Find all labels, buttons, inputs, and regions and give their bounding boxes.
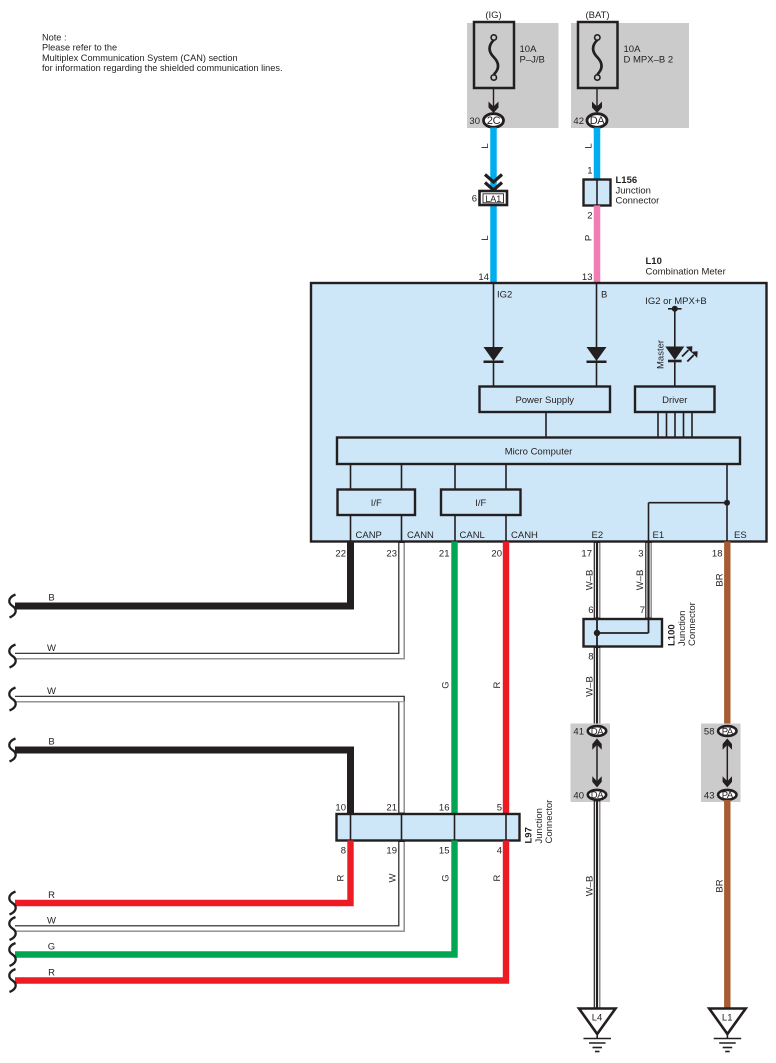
- svg-text:W–B: W–B: [585, 570, 596, 591]
- svg-text:IG2 or MPX+B: IG2 or MPX+B: [645, 296, 707, 307]
- svg-text:G: G: [441, 874, 452, 881]
- svg-text:4: 4: [497, 846, 502, 857]
- svg-text:41: 41: [573, 727, 584, 738]
- svg-text:1: 1: [587, 166, 592, 177]
- L100 labels: [667, 602, 699, 646]
- svg-text:B: B: [601, 290, 607, 301]
- svg-text:13: 13: [582, 272, 593, 283]
- svg-text:7: 7: [640, 605, 645, 616]
- svg-text:17: 17: [581, 549, 592, 560]
- svg-text:Master: Master: [656, 340, 667, 369]
- LED Master: [656, 340, 698, 387]
- svg-text:6: 6: [472, 194, 477, 205]
- wire R L97 pin 8 to offpage: [9, 841, 350, 915]
- svg-text:21: 21: [386, 803, 397, 814]
- svg-text:W: W: [47, 916, 56, 927]
- svg-text:Power Supply: Power Supply: [515, 395, 574, 406]
- svg-text:R: R: [336, 874, 347, 881]
- svg-text:W: W: [47, 643, 56, 654]
- svg-text:L4: L4: [592, 1013, 603, 1024]
- wire W-B E1 to L100 pin 7: [635, 542, 651, 620]
- wire power supply to micro computer: [545, 412, 547, 438]
- junction connector L97: [337, 814, 520, 841]
- power supply box: [480, 387, 611, 413]
- ground L1: [709, 1009, 746, 1052]
- svg-text:Combination Meter: Combination Meter: [646, 267, 726, 278]
- svg-text:L: L: [480, 235, 491, 240]
- svg-text:2C: 2C: [487, 115, 501, 127]
- svg-text:14: 14: [478, 272, 489, 283]
- svg-text:ES: ES: [734, 530, 747, 541]
- connector oval DA pin 42: [573, 114, 607, 128]
- svg-text:Multiplex Communication System: Multiplex Communication System (CAN) sec…: [42, 53, 238, 63]
- shield connector DA background: [571, 724, 611, 803]
- svg-text:6: 6: [588, 605, 593, 616]
- svg-text:L10: L10: [646, 256, 662, 267]
- wire L blue from 2C to meter pin 14: [490, 128, 497, 284]
- svg-text:LA1: LA1: [485, 194, 501, 204]
- L97 pin numbers bottom: [341, 846, 502, 857]
- combination meter L10 label: [646, 256, 726, 278]
- svg-text:DA: DA: [590, 115, 606, 127]
- svg-text:43: 43: [704, 790, 715, 801]
- micro computer box: [337, 438, 740, 465]
- L97 labels: [524, 800, 556, 844]
- svg-text:W–B: W–B: [585, 876, 596, 897]
- svg-text:W: W: [388, 873, 399, 882]
- svg-text:DA: DA: [591, 726, 604, 737]
- connector oval PA pin 43: [704, 790, 737, 801]
- svg-text:for information regarding the: for information regarding the shielded c…: [42, 63, 283, 73]
- wire L blue from DA to L156: [594, 128, 601, 180]
- svg-text:CANN: CANN: [407, 530, 434, 541]
- wire W offpage to L97 pin 21: [9, 686, 404, 814]
- svg-text:Please refer to the: Please refer to the: [42, 43, 117, 53]
- arrow to connector 2C: [489, 88, 499, 113]
- svg-text:W–B: W–B: [585, 676, 596, 697]
- svg-text:R: R: [492, 681, 503, 688]
- ground L4: [579, 1009, 616, 1052]
- connector LA1 pin 6: [472, 191, 507, 205]
- node IG2 or MPX+B: [645, 296, 707, 347]
- svg-text:16: 16: [439, 803, 450, 814]
- svg-text:21: 21: [439, 549, 450, 560]
- internal ground wiring E1 ES: [649, 464, 731, 542]
- svg-text:22: 22: [335, 549, 346, 560]
- svg-text:Connector: Connector: [544, 800, 555, 844]
- svg-text:15: 15: [439, 846, 450, 857]
- wire P pink from L156 to meter pin 13: [594, 206, 601, 284]
- wire R L97 pin 4 to offpage: [9, 841, 506, 993]
- svg-text:R: R: [48, 890, 55, 901]
- connector oval 2C pin 30: [469, 114, 503, 128]
- svg-text:40: 40: [573, 790, 584, 801]
- wire B offpage to L97 pin 10: [9, 737, 350, 815]
- wire G CANL to L97 pin 16: [441, 542, 455, 815]
- wire G L97 pin 15 to offpage: [9, 841, 454, 967]
- fuse F2 10A D MPX-B 2: [578, 10, 673, 88]
- wire W-B to ground L4: [585, 800, 600, 1009]
- svg-text:2: 2: [587, 211, 592, 222]
- svg-text:W: W: [47, 686, 56, 697]
- fuse F1 10A P-J/B: [474, 10, 545, 88]
- svg-text:R: R: [48, 968, 55, 979]
- svg-text:20: 20: [491, 549, 502, 560]
- svg-text:18: 18: [712, 549, 723, 560]
- driver box: [635, 387, 715, 413]
- double chevron splice: [485, 175, 502, 191]
- svg-text:10A: 10A: [624, 44, 642, 55]
- svg-text:CANL: CANL: [460, 530, 485, 541]
- svg-text:L100: L100: [667, 624, 678, 646]
- svg-text:8: 8: [341, 846, 346, 857]
- wire BR ES to shield connector: [715, 542, 728, 727]
- svg-text:23: 23: [386, 549, 397, 560]
- fuse block background BAT: [571, 23, 689, 128]
- svg-text:L: L: [480, 143, 491, 148]
- svg-text:58: 58: [704, 727, 715, 738]
- connector oval DA pin 41: [573, 726, 606, 738]
- svg-text:(BAT): (BAT): [585, 10, 609, 21]
- svg-text:G: G: [48, 942, 55, 953]
- svg-text:B: B: [48, 737, 54, 748]
- junction connector L156: [584, 175, 660, 207]
- svg-text:8: 8: [588, 652, 593, 663]
- wire W CANN to offpage: [9, 542, 404, 668]
- terminal numbers: [335, 549, 722, 560]
- svg-text:BR: BR: [715, 573, 726, 586]
- wire R CANH to L97 pin 5: [492, 542, 506, 815]
- svg-text:PA: PA: [722, 726, 734, 737]
- svg-text:I/F: I/F: [475, 498, 486, 509]
- svg-text:B: B: [48, 593, 54, 604]
- terminal labels: [356, 530, 747, 541]
- svg-text:42: 42: [573, 116, 584, 127]
- wires I/F to terminals: [351, 515, 507, 542]
- svg-text:P: P: [584, 235, 595, 241]
- svg-text:CANP: CANP: [356, 530, 382, 541]
- svg-text:L97: L97: [524, 827, 535, 843]
- driver bus wires: [658, 412, 692, 438]
- svg-text:(IG): (IG): [485, 10, 501, 21]
- shield arrows PA: [723, 739, 732, 788]
- shield connector PA background: [701, 724, 741, 803]
- svg-text:L156: L156: [616, 175, 638, 186]
- svg-text:Connector: Connector: [616, 196, 660, 207]
- connector oval DA pin 40: [573, 790, 606, 801]
- I/F box 2: [441, 490, 521, 516]
- svg-text:IG2: IG2: [497, 290, 512, 301]
- svg-text:3: 3: [638, 549, 643, 560]
- wire W L97 pin 19 to offpage: [9, 841, 404, 941]
- svg-text:R: R: [492, 874, 503, 881]
- L97 pin numbers top: [335, 803, 502, 814]
- wire B CANP to offpage: [9, 542, 350, 618]
- diode D2: [587, 283, 607, 387]
- svg-text:Micro Computer: Micro Computer: [505, 447, 573, 458]
- note text: [42, 32, 283, 73]
- wire W-B E2 to L100 pin 6: [585, 542, 600, 620]
- svg-text:P–J/B: P–J/B: [520, 55, 545, 66]
- svg-text:19: 19: [386, 846, 397, 857]
- svg-text:30: 30: [469, 116, 480, 127]
- svg-text:DA: DA: [591, 790, 604, 801]
- svg-text:Driver: Driver: [662, 395, 687, 406]
- arrow to connector DA: [592, 88, 602, 113]
- diode D1: [484, 283, 504, 387]
- I/F box 1: [338, 490, 416, 516]
- svg-text:Note :: Note :: [42, 32, 67, 42]
- fuse block background IG: [467, 23, 559, 128]
- svg-text:W–B: W–B: [635, 570, 646, 591]
- svg-text:I/F: I/F: [371, 498, 382, 509]
- svg-text:E2: E2: [592, 530, 604, 541]
- wire W-B L100 to shield connector: [585, 647, 600, 727]
- svg-text:L1: L1: [722, 1013, 733, 1024]
- svg-text:10A: 10A: [520, 44, 538, 55]
- svg-text:5: 5: [497, 803, 502, 814]
- svg-text:PA: PA: [722, 790, 734, 801]
- svg-text:Connector: Connector: [687, 602, 698, 646]
- svg-text:BR: BR: [715, 879, 726, 892]
- junction connector L100: [584, 619, 663, 647]
- svg-text:G: G: [441, 681, 452, 688]
- svg-text:E1: E1: [653, 530, 665, 541]
- wire BR to ground L1: [715, 800, 728, 1009]
- svg-text:10: 10: [335, 803, 346, 814]
- combination meter box: [311, 283, 767, 542]
- shield arrows DA: [592, 739, 601, 788]
- svg-text:D MPX–B 2: D MPX–B 2: [624, 55, 674, 66]
- svg-text:CANH: CANH: [511, 530, 538, 541]
- svg-text:L: L: [584, 143, 595, 148]
- wires micro computer to I/F: [351, 464, 507, 490]
- connector oval PA pin 58: [704, 726, 737, 738]
